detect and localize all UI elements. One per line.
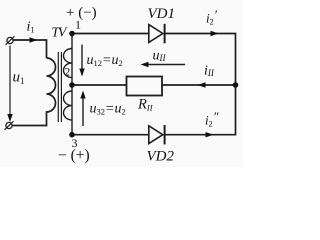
svg-text:1: 1 — [75, 18, 81, 32]
svg-text:u12=u2: u12=u2 — [87, 53, 123, 68]
svg-text:3: 3 — [72, 136, 78, 150]
svg-text:VD1: VD1 — [148, 6, 176, 22]
svg-text:+ (−): + (−) — [66, 5, 97, 21]
svg-text:2: 2 — [65, 67, 71, 79]
svg-text:VD2: VD2 — [147, 149, 175, 165]
svg-text:u32=u2: u32=u2 — [90, 102, 126, 117]
